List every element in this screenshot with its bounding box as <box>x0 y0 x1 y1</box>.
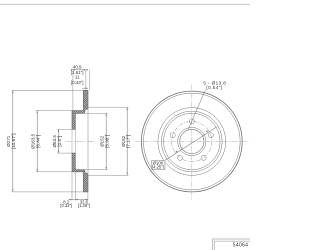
svg-text:[5.98"]: [5.98"] <box>104 135 109 148</box>
svg-text:[0.43"]: [0.43"] <box>71 80 84 85</box>
svg-text:[4.25"]: [4.25"] <box>152 165 164 170</box>
svg-text:[0.54"]: [0.54"] <box>206 85 222 90</box>
svg-text:11: 11 <box>75 75 80 80</box>
svg-text:40.9: 40.9 <box>73 65 82 70</box>
svg-text:[7.17"]: [7.17"] <box>126 135 131 148</box>
svg-text:[1.28"]: [1.28"] <box>78 203 90 208</box>
svg-text:[6.44"]: [6.44"] <box>35 135 40 148</box>
svg-text:54064: 54064 <box>233 243 248 249</box>
svg-text:[10.67"]: [10.67"] <box>11 133 16 149</box>
svg-text:[0.32"]: [0.32"] <box>60 203 72 208</box>
svg-text:[2.5"]: [2.5"] <box>57 136 62 147</box>
